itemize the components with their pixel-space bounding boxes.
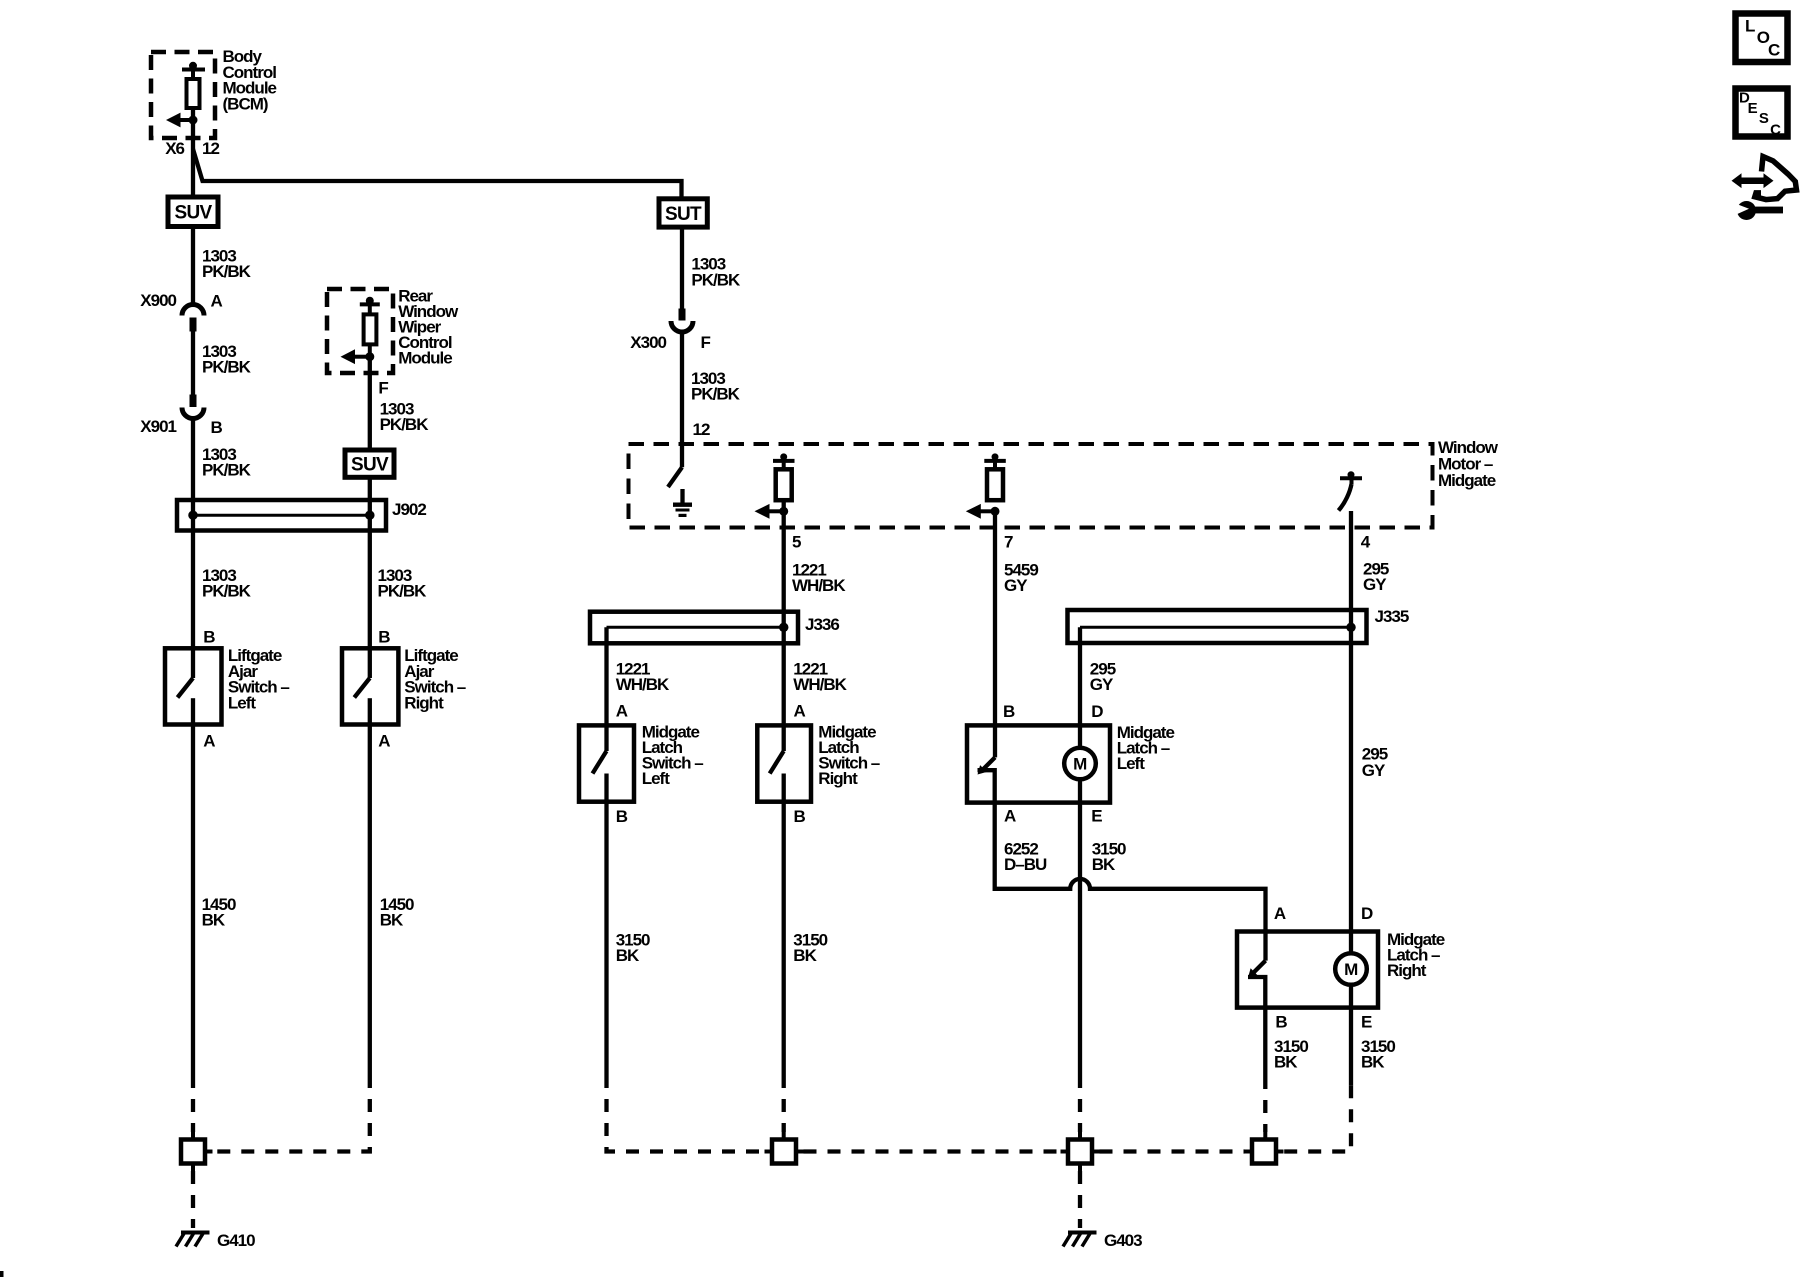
wire label 3150 BK (switch left) — [616, 930, 650, 965]
splice square (switch right branch) — [765, 1132, 804, 1164]
svg-text:BK: BK — [1092, 855, 1116, 874]
wire label 1303 PK/BK (X901 to J902) — [202, 445, 252, 480]
midgate latch switch left box — [579, 725, 634, 801]
wire: wiper module pin F down to SUV connector — [368, 357, 372, 450]
svg-text:A: A — [616, 701, 628, 720]
in-line connector X300 pin F — [630, 309, 710, 353]
wire: pin 5 through J336 to midgate latch switch right — [782, 500, 786, 751]
svg-text:BK: BK — [1361, 1053, 1385, 1072]
splice block J902 — [177, 500, 426, 531]
svg-text:SUV: SUV — [175, 203, 213, 224]
svg-text:PK/BK: PK/BK — [378, 582, 428, 601]
svg-text:BK: BK — [616, 946, 640, 965]
in-line connector X900 pin A — [140, 291, 222, 332]
midgate latch left box — [967, 725, 1110, 802]
wire: branch from BCM to SUT (horizontal run) — [193, 149, 682, 199]
svg-text:BK: BK — [202, 911, 226, 930]
connector label SUV (left) — [168, 197, 218, 227]
wire: J336 left leg down to midgate latch switch left — [604, 627, 608, 751]
midgate latch left label — [1117, 723, 1175, 773]
svg-text:B: B — [1003, 702, 1015, 721]
wire label 1450 BK (right) — [380, 895, 414, 930]
wire: SUV right to liftgate ajar switch right through J902 — [368, 477, 372, 678]
svg-text:X6: X6 — [165, 139, 184, 158]
svg-text:F: F — [378, 379, 388, 398]
svg-text:Midgate: Midgate — [1438, 471, 1496, 490]
svg-text:WH/BK: WH/BK — [793, 675, 847, 694]
midgate latch right switch blade with arrow — [1248, 961, 1266, 1008]
svg-text:WH/BK: WH/BK — [616, 675, 670, 694]
wire: dashed to ground G403 — [1078, 1171, 1082, 1228]
svg-text:A: A — [794, 701, 806, 720]
bus: dashed splice bus segment (to right splice) — [1100, 1149, 1245, 1153]
svg-text:SUT: SUT — [665, 204, 702, 225]
svg-text:Left: Left — [228, 694, 257, 713]
wire: latch left pin E dashed drop — [1078, 1075, 1082, 1132]
midgate latch right box — [1237, 932, 1378, 1008]
svg-text:12: 12 — [202, 139, 219, 158]
midgate latch right label — [1387, 930, 1445, 980]
midgate latch switch right contacts — [770, 751, 784, 802]
wire label 1303 PK/BK (J902 to switch left) — [202, 566, 252, 601]
navigation icon (double arrow, swoosh outline, wrench) — [1732, 157, 1797, 221]
svg-text:A: A — [1274, 904, 1286, 923]
window motor internal switch (pin 4) — [1339, 471, 1363, 510]
midgate latch left switch blade with arrow — [978, 757, 996, 802]
wire: latch right pin B dashed drop — [1263, 1076, 1267, 1132]
svg-text:F: F — [701, 333, 711, 352]
wire: latch left pin E down (solid) — [1078, 803, 1082, 1075]
svg-text:A: A — [203, 731, 215, 750]
wire: liftgate switch left pin A to splice (solid part) — [191, 725, 195, 1076]
wire: liftgate switch right pin A down (solid) — [368, 725, 372, 1076]
midgate latch right motor M — [1335, 953, 1367, 1085]
wire: SUT down to X300 — [680, 227, 684, 308]
module BCM label — [223, 47, 277, 113]
svg-text:PK/BK: PK/BK — [691, 270, 741, 289]
svg-text:GY: GY — [1362, 761, 1386, 780]
wire: midgate latch switch left pin B down (solid) — [604, 802, 608, 1075]
window motor internal resistor (pin 5) — [755, 453, 795, 518]
svg-text:A: A — [1004, 807, 1016, 826]
svg-text:Module: Module — [398, 349, 452, 368]
splice square (G410 branch) — [181, 1132, 213, 1171]
svg-text:A: A — [211, 292, 223, 311]
wire: switch left pin B dashed corner to bus — [607, 1075, 765, 1152]
wire label 295 GY (J335 to latch right) — [1362, 744, 1388, 780]
svg-text:Right: Right — [404, 694, 444, 713]
svg-text:SUV: SUV — [351, 455, 389, 476]
junction dot J335 — [1346, 623, 1356, 633]
svg-text:PK/BK: PK/BK — [202, 582, 252, 601]
wire: dashed to ground G410 — [191, 1171, 195, 1228]
wire: latch right pin B down (solid) — [1263, 1008, 1267, 1076]
svg-text:E: E — [1361, 1013, 1372, 1032]
in-line connector X901 pin B — [140, 395, 222, 437]
svg-text:E: E — [1091, 807, 1102, 826]
module window motor midgate dashed box — [629, 444, 1433, 528]
wire label 295 GY (pin 4) — [1363, 560, 1389, 595]
svg-text:M: M — [1073, 755, 1087, 774]
connector label SUV (right) — [345, 450, 394, 477]
wire: pin 7 down to midgate latch left pin B — [993, 511, 997, 757]
wire label 6252 D-BU — [1004, 839, 1047, 874]
wire label 3150 BK (latch right pin B) — [1274, 1037, 1308, 1072]
J902 internal bus wire — [193, 514, 370, 517]
wire label 1303 PK/BK (J902 to switch right) — [378, 566, 428, 601]
svg-text:D–BU: D–BU — [1004, 855, 1047, 874]
liftgate ajar switch right contacts — [354, 678, 370, 725]
svg-text:BK: BK — [793, 946, 817, 965]
liftgate ajar switch right label — [404, 646, 466, 712]
svg-text:(BCM): (BCM) — [223, 94, 268, 113]
wire label 1221 WH/BK (pin 5) — [792, 560, 846, 595]
wire: X900 to X901 — [191, 332, 195, 395]
svg-text:PK/BK: PK/BK — [202, 357, 252, 376]
svg-text:E: E — [1748, 100, 1758, 117]
J335 internal bus wire — [1080, 626, 1351, 629]
svg-text:B: B — [794, 807, 806, 826]
svg-text:G410: G410 — [217, 1231, 255, 1250]
svg-text:C: C — [1768, 41, 1780, 60]
wire: latch right pin E dashed corner to bus — [1284, 1085, 1352, 1151]
wire: X901 through J902 down to liftgate ajar switch left — [191, 419, 195, 679]
svg-text:PK/BK: PK/BK — [691, 384, 741, 403]
svg-text:D: D — [1091, 702, 1103, 721]
svg-text:Left: Left — [1117, 754, 1146, 773]
wire label 1450 BK (left) — [202, 895, 236, 930]
liftgate ajar switch left label — [228, 646, 290, 712]
svg-text:G403: G403 — [1104, 1231, 1142, 1250]
wire: J335 left leg down to midgate latch left pin D — [1078, 627, 1082, 747]
wire: X300 to window motor pin 12 — [680, 332, 684, 467]
svg-text:J335: J335 — [1375, 607, 1409, 626]
svg-text:B: B — [616, 807, 628, 826]
wire: switch right pin B dashed drop — [782, 1075, 786, 1132]
svg-text:B: B — [203, 628, 215, 647]
svg-text:Left: Left — [642, 769, 671, 788]
midgate latch left motor M — [1064, 748, 1096, 803]
svg-text:X900: X900 — [140, 291, 176, 310]
page edge mark — [0, 1271, 4, 1277]
window motor midgate label — [1438, 438, 1499, 490]
svg-text:GY: GY — [1004, 576, 1028, 595]
wire label 3150 BK (latch left pin E) — [1092, 839, 1126, 874]
connector label SUT — [659, 199, 707, 227]
module BCM dashed box — [151, 52, 215, 138]
svg-text:J336: J336 — [805, 615, 839, 634]
wire label 1221 WH/BK (switch right) — [793, 660, 847, 695]
svg-text:PK/BK: PK/BK — [380, 415, 430, 434]
liftgate ajar switch left contacts — [178, 678, 194, 725]
midgate latch switch right box — [757, 725, 811, 801]
wire label 1303 PK/BK (X300 to window motor) — [691, 369, 741, 404]
BCM internal driver (resistor with supply bar and output arrow) — [166, 62, 205, 128]
wire: midgate latch switch right pin B down (solid) — [782, 802, 786, 1075]
midgate latch switch right label — [818, 723, 880, 789]
svg-text:5: 5 — [792, 533, 801, 552]
wire label 3150 BK (latch right pin E) — [1361, 1037, 1395, 1072]
ground G403 — [1063, 1231, 1142, 1250]
junction dot J902 left — [188, 510, 198, 520]
svg-text:C: C — [1770, 121, 1781, 138]
svg-text:Right: Right — [818, 769, 858, 788]
ground G410 — [176, 1231, 255, 1250]
wire: 6252 D-BU from latch left pin A to latch right pin A (with hop) — [995, 803, 1266, 961]
wire label 3150 BK (switch right) — [793, 930, 827, 965]
module rear window wiper control dashed box — [327, 289, 393, 373]
DESC legend box — [1736, 89, 1788, 139]
svg-text:GY: GY — [1363, 575, 1387, 594]
svg-text:A: A — [378, 731, 390, 750]
svg-text:GY: GY — [1090, 675, 1114, 694]
wire label 295 GY (J335 leg) — [1090, 660, 1116, 695]
svg-text:S: S — [1759, 110, 1769, 127]
wire label 1303 PK/BK (wiper) — [380, 399, 430, 434]
svg-text:BK: BK — [380, 911, 404, 930]
rear window wiper control module label — [398, 287, 459, 368]
svg-text:X300: X300 — [630, 333, 666, 352]
midgate latch switch left contacts — [593, 751, 607, 802]
wire: pin 4 through J335 to midgate latch right pin D — [1349, 511, 1353, 953]
BCM connector pin labels X6 | 12 — [165, 139, 219, 158]
wire label 5459 GY (pin 7) — [1004, 560, 1038, 595]
svg-text:PK/BK: PK/BK — [202, 262, 252, 281]
junction dot J902 right — [365, 510, 375, 520]
wire label 1221 WH/BK (switch left) — [616, 660, 670, 695]
svg-text:B: B — [378, 628, 390, 647]
wire: BCM pin 12 down to SUV connector — [191, 108, 195, 197]
svg-text:J902: J902 — [392, 500, 426, 519]
wire: dashed corner to splice bus — [213, 1075, 370, 1152]
J336 internal bus wire — [607, 626, 784, 629]
svg-text:BK: BK — [1274, 1053, 1298, 1072]
splice block J336 — [590, 612, 839, 644]
svg-text:WH/BK: WH/BK — [792, 576, 846, 595]
junction dot J336 — [779, 623, 789, 633]
svg-text:M: M — [1344, 960, 1358, 979]
svg-text:PK/BK: PK/BK — [202, 460, 252, 479]
LOC legend box — [1736, 14, 1788, 63]
wire label 1303 PK/BK (SUT top) — [691, 254, 741, 289]
wire label 1303 PK/BK (below SUV left) — [202, 247, 252, 282]
wire: dashed drop to ground splice — [191, 1075, 195, 1132]
window motor internal resistor (pin 7) — [966, 453, 1006, 518]
svg-text:12: 12 — [693, 420, 710, 439]
svg-text:L: L — [1745, 17, 1755, 36]
svg-text:Right: Right — [1387, 961, 1427, 980]
window motor internal switch to ground (pin 12) — [668, 467, 692, 515]
svg-text:7: 7 — [1004, 533, 1013, 552]
liftgate ajar switch left box — [165, 648, 222, 724]
splice square (latch right B branch) — [1245, 1132, 1284, 1164]
svg-text:B: B — [1275, 1013, 1287, 1032]
svg-text:D: D — [1361, 904, 1373, 923]
splice square (G403 branch) — [1061, 1132, 1100, 1171]
wiper module internal driver (resistor with supply bar and output arrow) — [341, 297, 380, 364]
svg-text:B: B — [211, 418, 223, 437]
splice block J335 — [1068, 607, 1409, 643]
wire: SUV to X900 — [191, 227, 195, 305]
midgate latch switch left label — [642, 723, 704, 789]
bus: dashed splice bus segment (splice to splice) — [804, 1149, 1061, 1153]
liftgate ajar switch right box — [342, 648, 398, 724]
wire label 1303 PK/BK (X900-X901) — [202, 342, 252, 377]
svg-text:X901: X901 — [140, 417, 176, 436]
